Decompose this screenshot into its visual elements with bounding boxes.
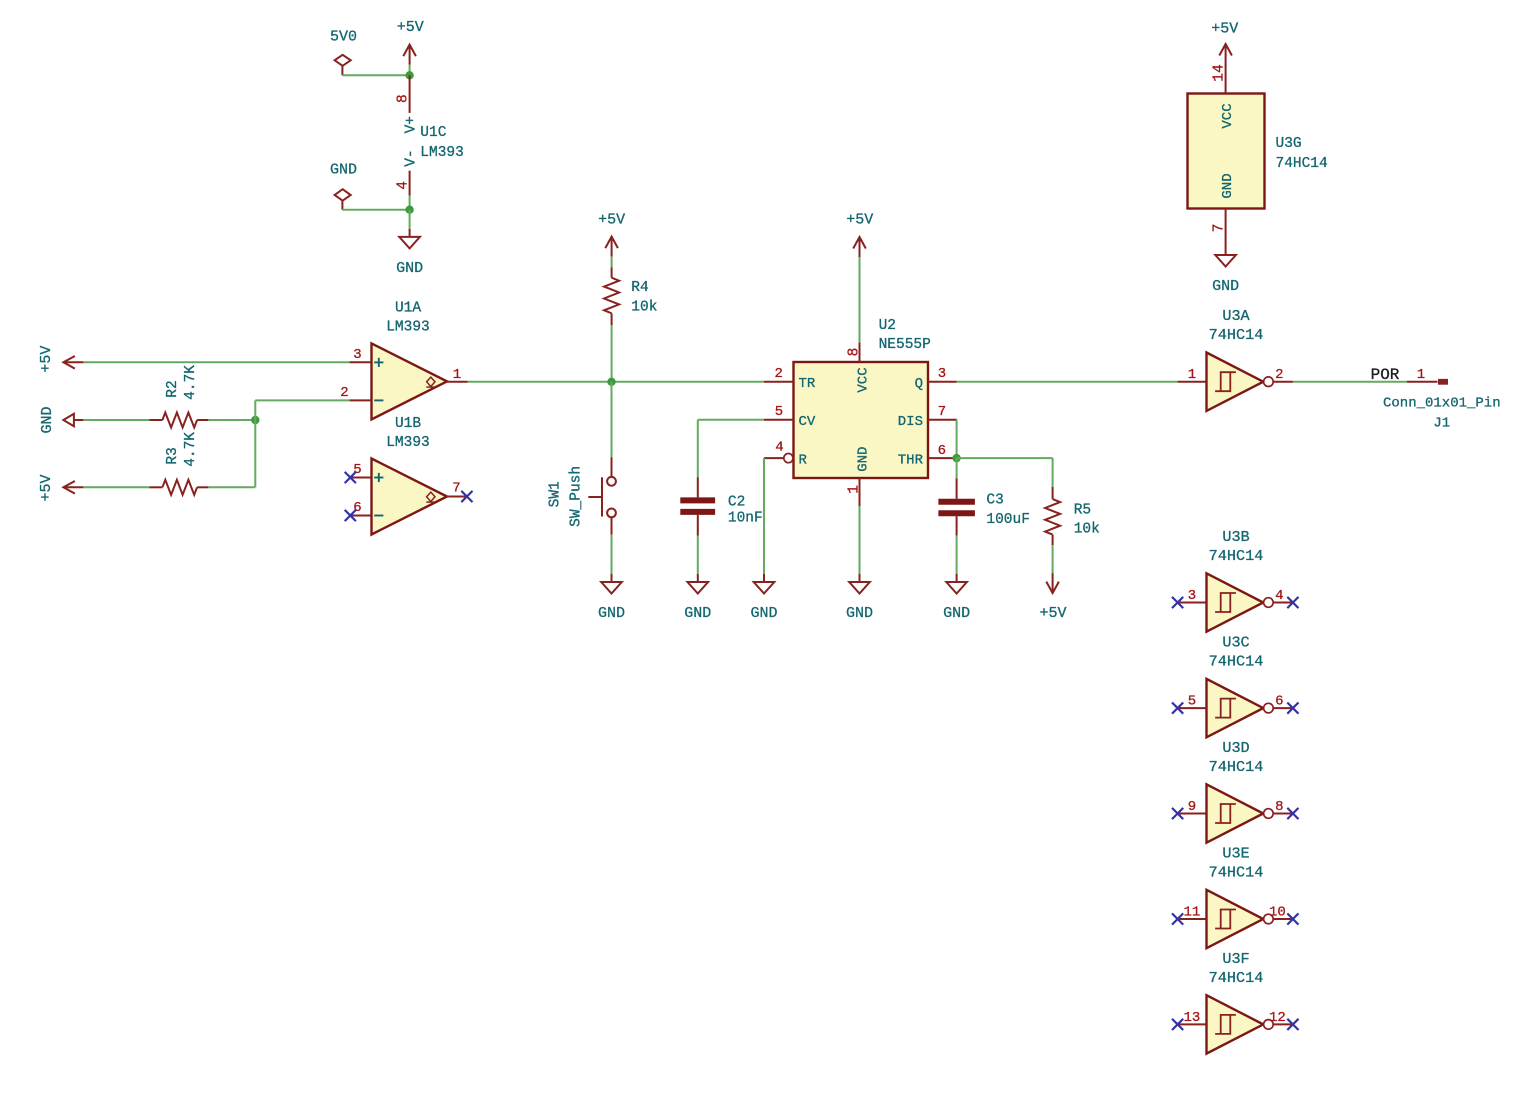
svg-text:+5V: +5V	[598, 211, 625, 228]
wire (U1A out to 555 TR)	[468, 381, 765, 383]
svg-text:74HC14: 74HC14	[1209, 969, 1264, 987]
svg-text:LM393: LM393	[386, 320, 430, 336]
U2 pin 5 CV	[764, 419, 794, 421]
svg-text:74HC14: 74HC14	[1209, 547, 1264, 565]
svg-text:14: 14	[1211, 64, 1227, 81]
svg-text:U2: U2	[879, 318, 896, 334]
svg-text:11: 11	[1183, 904, 1200, 920]
resistor R2 4.7K	[149, 419, 162, 421]
svg-text:U3G: U3G	[1276, 136, 1302, 152]
svg-text:SW1: SW1	[548, 481, 564, 507]
U2 pin 8 VCC	[859, 342, 861, 362]
IC U3G 74HC14 power body	[1188, 94, 1265, 209]
svg-text:1: 1	[453, 367, 461, 383]
svg-text:+5V: +5V	[38, 346, 55, 373]
wire	[611, 535, 613, 574]
svg-text:U1A: U1A	[395, 301, 421, 317]
svg-text:GND: GND	[598, 605, 625, 622]
svg-text:J1: J1	[1433, 416, 1450, 432]
inverter U3D 74HC14	[1207, 784, 1264, 842]
svg-text:R2: R2	[165, 380, 181, 397]
junction	[405, 206, 413, 214]
inverter U3A 74HC14	[1207, 353, 1264, 411]
svg-text:GND: GND	[39, 406, 56, 433]
wire	[342, 209, 409, 211]
switch SW1 SW_Push	[611, 457, 613, 477]
wire	[1225, 64, 1227, 66]
U2 pin 2 TR	[764, 381, 794, 383]
junction	[405, 71, 413, 79]
svg-text:R: R	[799, 452, 808, 468]
svg-text:12: 12	[1269, 1010, 1286, 1026]
resistor R3 4.7K	[149, 486, 162, 488]
svg-text:5: 5	[353, 462, 361, 478]
junction (trigger node)	[607, 378, 615, 386]
svg-text:6: 6	[353, 500, 361, 516]
svg-text:C3: C3	[986, 492, 1003, 508]
svg-text:74HC14: 74HC14	[1209, 653, 1264, 671]
svg-text:6: 6	[938, 443, 946, 459]
svg-text:V-: V-	[404, 149, 420, 166]
svg-text:LM393: LM393	[420, 145, 464, 161]
svg-text:1: 1	[1188, 367, 1196, 383]
wire	[957, 457, 1053, 459]
svg-text:CV: CV	[799, 414, 816, 430]
capacitor C2 10nF	[697, 477, 699, 497]
svg-text:VCC: VCC	[856, 367, 872, 392]
svg-text:6: 6	[1275, 694, 1283, 710]
svg-text:3: 3	[938, 366, 946, 382]
svg-text:4: 4	[1275, 588, 1283, 604]
wire	[859, 257, 861, 342]
svg-text:GND: GND	[330, 162, 357, 179]
resistor R4 10k	[611, 267, 613, 277]
wire	[208, 486, 255, 488]
wire	[611, 257, 613, 268]
svg-text:U1B: U1B	[395, 416, 421, 432]
inverter U3E 74HC14	[1207, 890, 1264, 948]
svg-text:+5V: +5V	[397, 19, 424, 36]
svg-text:GND: GND	[846, 605, 873, 622]
ground (reset pin)	[763, 574, 765, 582]
svg-text:2: 2	[340, 385, 348, 401]
svg-text:5: 5	[1188, 694, 1196, 710]
svg-text:U3B: U3B	[1222, 528, 1249, 546]
svg-text:2: 2	[1275, 367, 1283, 383]
svg-text:10: 10	[1269, 904, 1286, 920]
svg-text:GND: GND	[750, 605, 777, 622]
svg-text:SW_Push: SW_Push	[569, 466, 585, 527]
wire	[254, 400, 256, 420]
junction (THR node)	[952, 454, 960, 462]
svg-text:+5V: +5V	[846, 212, 873, 229]
wire (U3A out)	[1293, 381, 1407, 383]
svg-text:R3: R3	[165, 447, 181, 464]
svg-text:Q: Q	[915, 376, 923, 392]
wire	[956, 458, 958, 478]
ground (SW1)	[611, 574, 613, 582]
svg-text:U3D: U3D	[1222, 739, 1249, 757]
svg-text:10k: 10k	[631, 300, 657, 316]
svg-text:4.7K: 4.7K	[183, 365, 199, 400]
svg-text:100uF: 100uF	[986, 512, 1030, 528]
no-connect pin 7	[461, 491, 472, 502]
svg-text:GND: GND	[856, 447, 872, 472]
svg-text:GND: GND	[1212, 278, 1239, 295]
svg-text:TR: TR	[799, 376, 816, 392]
wire (DIS to THR)	[956, 420, 958, 458]
timer U2 NE555P body	[794, 362, 929, 478]
U2 pin 1 GND	[859, 478, 861, 506]
svg-text:5V0: 5V0	[330, 29, 357, 46]
ground (555 GND)	[859, 574, 861, 582]
svg-text:U3A: U3A	[1222, 307, 1250, 325]
wire	[956, 536, 958, 574]
wire	[611, 325, 613, 382]
wire	[697, 536, 699, 575]
op-amp U1B pin 7	[447, 496, 467, 498]
svg-text:4: 4	[396, 181, 412, 190]
svg-text:7: 7	[452, 481, 460, 497]
svg-text:GND: GND	[943, 605, 970, 622]
wire	[763, 458, 765, 574]
svg-text:74HC14: 74HC14	[1276, 156, 1328, 172]
svg-text:1: 1	[1417, 367, 1425, 383]
op-amp U1C power unit pin 8 V+	[409, 75, 411, 113]
svg-text:74HC14: 74HC14	[1209, 758, 1264, 776]
svg-text:V+: V+	[404, 116, 420, 133]
svg-text:8: 8	[396, 94, 412, 103]
wire	[1052, 458, 1054, 487]
svg-text:1: 1	[846, 485, 862, 494]
svg-text:10k: 10k	[1074, 521, 1100, 537]
wire	[1052, 545, 1054, 573]
svg-text:R4: R4	[631, 280, 648, 296]
svg-text:U3F: U3F	[1222, 950, 1249, 968]
U2 pin 6 THR	[928, 457, 957, 459]
wire	[409, 210, 411, 229]
no-connect pin 5	[345, 472, 356, 483]
wire	[611, 382, 613, 457]
ground (C2)	[697, 574, 699, 582]
wire	[83, 361, 349, 363]
capacitor C3 100uF	[956, 478, 958, 498]
wire	[342, 74, 409, 76]
svg-text:NE555P: NE555P	[879, 337, 931, 353]
svg-text:+5V: +5V	[1039, 605, 1066, 622]
wire	[698, 419, 764, 421]
svg-text:VCC: VCC	[1220, 103, 1236, 128]
junction (R2/R3 node)	[251, 416, 259, 424]
svg-text:10nF: 10nF	[728, 510, 763, 526]
op-amp U1B pin 5	[350, 477, 371, 479]
svg-text:5: 5	[775, 404, 783, 420]
ground (U1C)	[409, 229, 411, 237]
op-amp U1A pin 1 output	[447, 381, 468, 383]
svg-text:8: 8	[846, 348, 862, 357]
svg-text:LM393: LM393	[386, 435, 430, 451]
svg-text:DIS: DIS	[898, 414, 923, 430]
wire	[859, 506, 861, 574]
svg-text:13: 13	[1183, 1010, 1200, 1026]
svg-text:74HC14: 74HC14	[1209, 326, 1264, 344]
inverter U3B 74HC14	[1207, 573, 1264, 631]
svg-text:4: 4	[775, 439, 783, 455]
svg-text:8: 8	[1275, 799, 1283, 815]
svg-text:2: 2	[774, 366, 782, 382]
ground (U3G)	[1225, 247, 1227, 255]
op-amp U1B LM393	[372, 459, 448, 535]
wire	[83, 419, 149, 421]
svg-text:U3E: U3E	[1222, 844, 1249, 862]
svg-text:GND: GND	[396, 260, 423, 277]
svg-text:R5: R5	[1074, 502, 1091, 518]
svg-text:C2: C2	[728, 494, 745, 510]
wire	[409, 196, 411, 210]
inverter U3F 74HC14	[1207, 995, 1264, 1053]
svg-text:U3C: U3C	[1222, 634, 1249, 652]
svg-text:7: 7	[938, 404, 946, 420]
svg-text:Conn_01x01_Pin: Conn_01x01_Pin	[1383, 395, 1501, 411]
svg-text:+5V: +5V	[1211, 20, 1238, 37]
svg-text:4.7K: 4.7K	[183, 432, 199, 467]
U2 pin 3 Q	[928, 381, 957, 383]
svg-text:3: 3	[1188, 588, 1196, 604]
U2 pin 4 R	[764, 457, 784, 459]
connector J1 pin 1	[1407, 381, 1438, 383]
svg-text:3: 3	[353, 347, 361, 363]
op-amp U1A pin 2	[350, 399, 372, 401]
wire	[208, 419, 255, 421]
svg-text:POR: POR	[1371, 366, 1400, 384]
svg-text:THR: THR	[898, 452, 924, 468]
U3G pin 7 GND	[1225, 209, 1227, 248]
inverter U3C 74HC14	[1207, 679, 1264, 737]
svg-text:GND: GND	[684, 605, 711, 622]
wire	[83, 486, 149, 488]
power +5V (R5 bottom)	[1046, 582, 1059, 594]
resistor R5 10k	[1052, 487, 1054, 499]
svg-text:7: 7	[1211, 224, 1227, 233]
svg-text:U1C: U1C	[420, 125, 446, 141]
wire (555 Q to U3A)	[957, 381, 1178, 383]
U3G pin 14 VCC	[1225, 64, 1227, 94]
ground (C3)	[956, 574, 958, 582]
op-amp U1B pin 6	[350, 515, 371, 517]
svg-text:+5V: +5V	[38, 474, 55, 501]
svg-text:GND: GND	[1220, 173, 1236, 198]
svg-text:9: 9	[1188, 799, 1196, 815]
no-connect pin 6	[345, 510, 356, 521]
svg-text:74HC14: 74HC14	[1209, 863, 1264, 881]
U2 pin 7 DIS	[928, 419, 957, 421]
op-amp U1A pin 3	[350, 361, 372, 363]
op-amp U1A LM393	[372, 343, 448, 419]
